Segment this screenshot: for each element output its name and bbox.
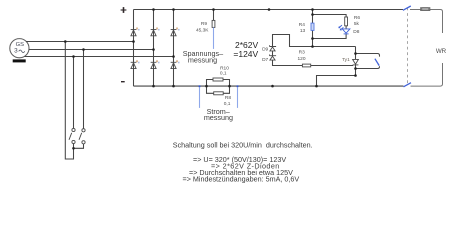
svg-text:D9: D9 bbox=[262, 47, 268, 53]
svg-text:0,1: 0,1 bbox=[220, 71, 227, 77]
svg-text:D8: D8 bbox=[353, 29, 359, 35]
svg-text:Ty1: Ty1 bbox=[342, 57, 350, 63]
svg-text:13: 13 bbox=[300, 28, 306, 34]
svg-text:5k: 5k bbox=[354, 21, 360, 27]
svg-text:=124V: =124V bbox=[233, 49, 258, 59]
svg-text:D7: D7 bbox=[262, 57, 268, 63]
svg-text:=> Mindestzündangaben: 5mA, 0,: => Mindestzündangaben: 5mA, 0,6V bbox=[183, 175, 300, 184]
svg-text:R4: R4 bbox=[299, 22, 305, 28]
svg-text:WR: WR bbox=[436, 48, 447, 55]
svg-text:Schaltung soll bei 320U/min d: Schaltung soll bei 320U/min durchschalte… bbox=[173, 140, 313, 149]
svg-text:R3: R3 bbox=[299, 49, 305, 55]
svg-text:45,3K: 45,3K bbox=[196, 27, 209, 33]
svg-text:R8: R8 bbox=[225, 95, 231, 101]
svg-text:messung: messung bbox=[204, 113, 233, 122]
svg-text:messung: messung bbox=[188, 56, 217, 65]
svg-text:R9: R9 bbox=[201, 21, 207, 27]
svg-text:3: 3 bbox=[14, 48, 18, 55]
svg-text:R6: R6 bbox=[354, 15, 360, 21]
svg-text:120: 120 bbox=[297, 56, 305, 62]
